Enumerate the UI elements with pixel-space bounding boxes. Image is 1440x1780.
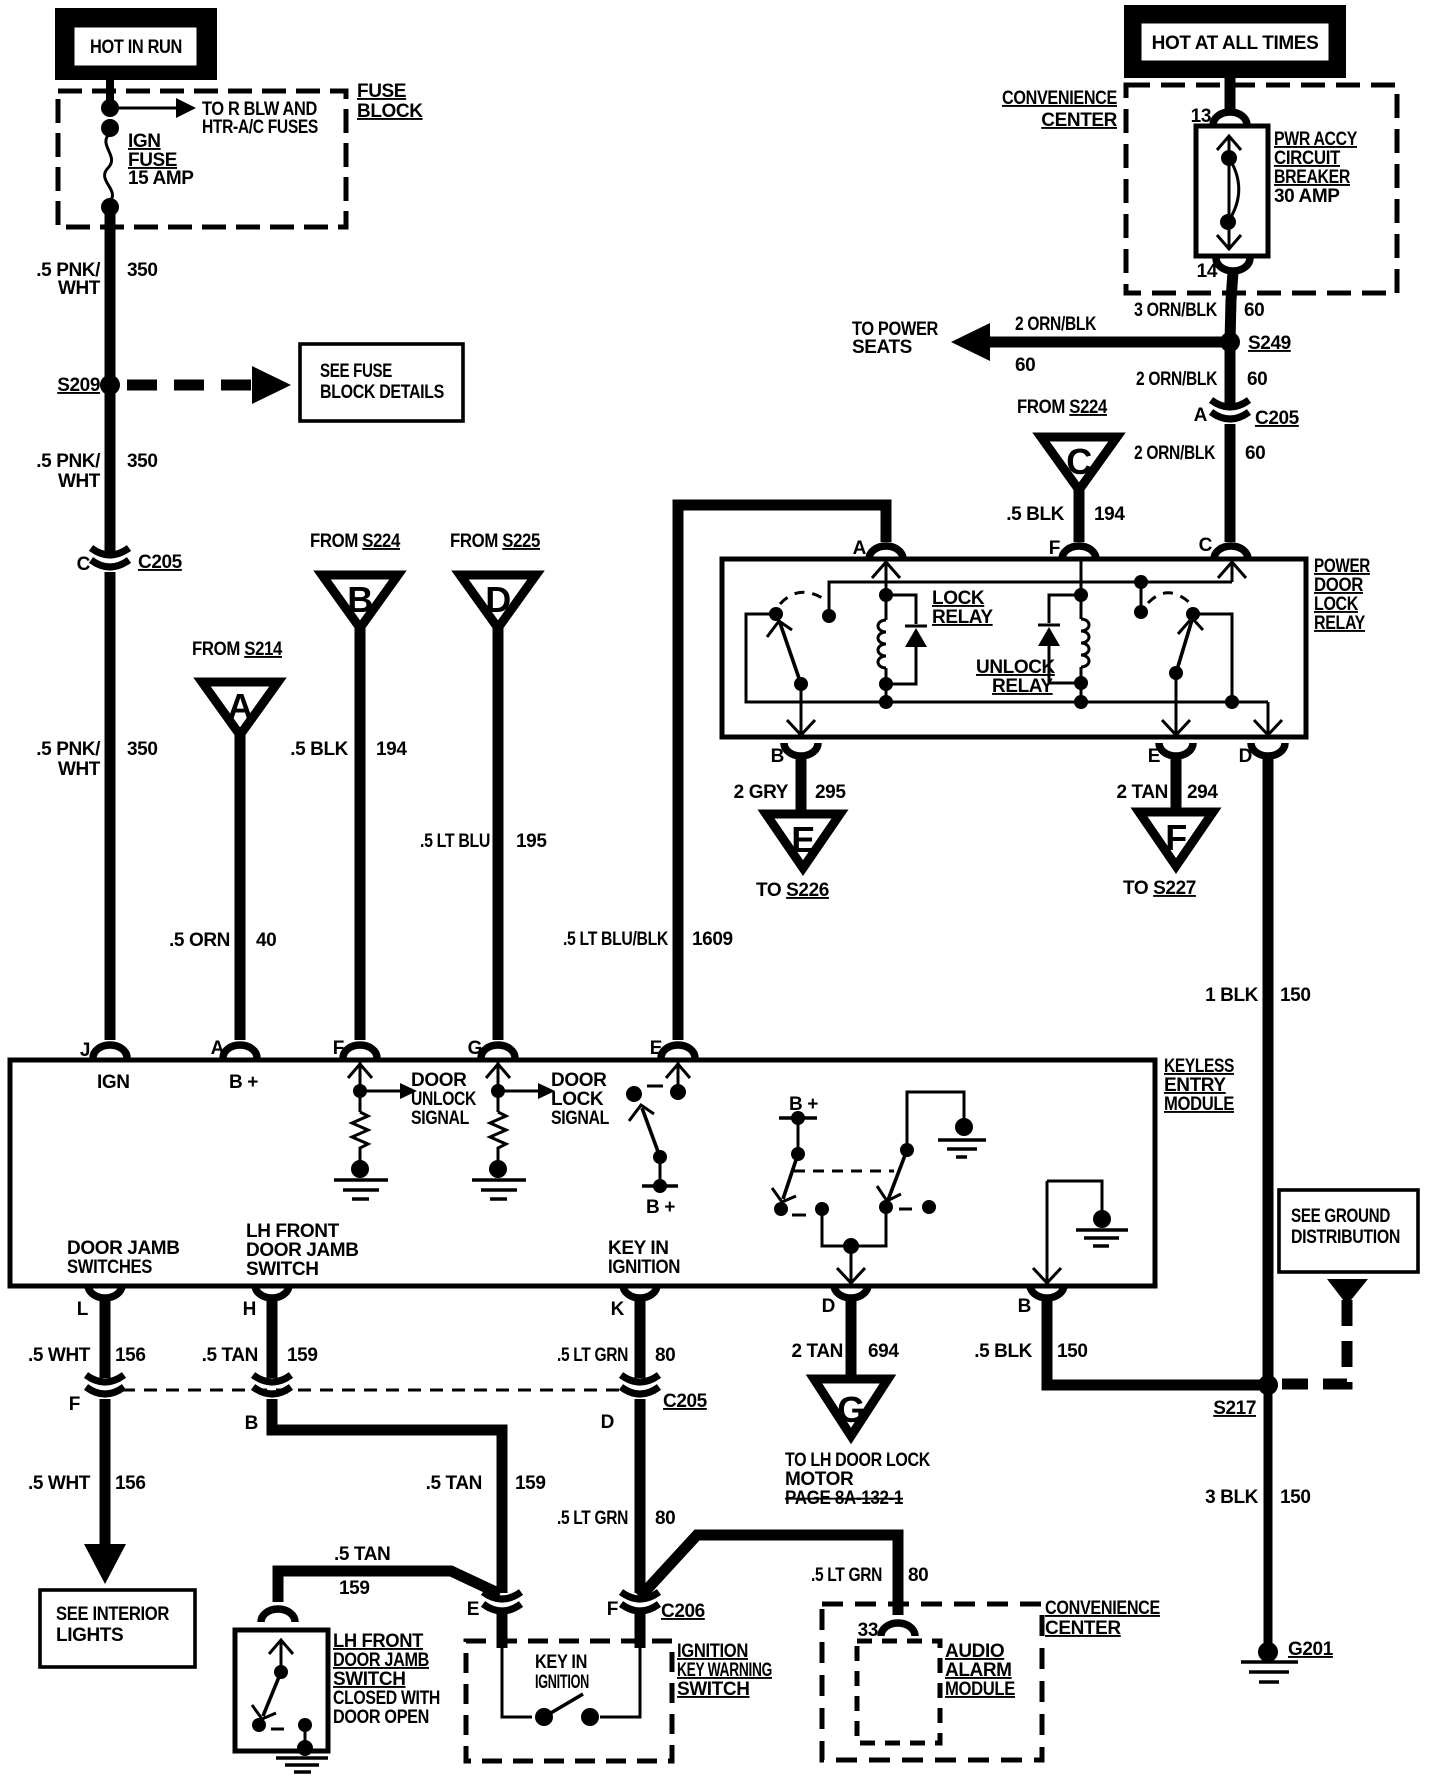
pin B ground branch [1033, 1181, 1128, 1283]
svg-text:FROM S224: FROM S224 [310, 531, 401, 552]
svg-text:UNLOCK: UNLOCK [976, 657, 1056, 678]
node unlock coil top [1074, 588, 1088, 602]
svg-text:.5 LT BLU/BLK: .5 LT BLU/BLK [563, 929, 669, 950]
svg-text:60: 60 [1244, 300, 1264, 321]
svg-text:LOCK: LOCK [932, 588, 985, 609]
wire .5 BLK 194 triangle B to module pin F [355, 628, 366, 1040]
node lock rail junction [879, 695, 893, 709]
svg-text:2 TAN: 2 TAN [1117, 782, 1168, 803]
svg-text:.5 BLK: .5 BLK [1006, 504, 1064, 525]
svg-text:WHT: WHT [58, 278, 101, 299]
circuit breaker PWR ACCY 30 AMP [1196, 126, 1268, 256]
svg-text:2 ORN/BLK: 2 ORN/BLK [1134, 443, 1216, 464]
svg-text:.5 LT GRN: .5 LT GRN [557, 1345, 628, 1366]
connector C205 pin F (bottom row) [69, 1375, 124, 1415]
svg-text:350: 350 [127, 451, 158, 472]
KEYLESS ENTRY MODULE box [10, 1060, 1155, 1286]
svg-text:SIGNAL: SIGNAL [551, 1108, 610, 1129]
node: ign fuse bottom junction [101, 198, 119, 216]
svg-text:.5 LT BLU: .5 LT BLU [420, 831, 490, 852]
svg-text:2 ORN/BLK: 2 ORN/BLK [1136, 369, 1218, 390]
svg-text:F: F [607, 1599, 618, 1620]
svg-text:WHT: WHT [58, 471, 101, 492]
svg-text:DOOR JAMB: DOOR JAMB [333, 1650, 429, 1671]
svg-text:156: 156 [115, 1473, 146, 1494]
wire pivot to D rail [1193, 614, 1232, 702]
svg-text:194: 194 [1094, 504, 1125, 525]
svg-text:30 AMP: 30 AMP [1274, 186, 1340, 207]
svg-text:SWITCH: SWITCH [677, 1679, 750, 1700]
wire .5 BLK 194 triangle C to relay pin F [1074, 490, 1085, 542]
svg-text:SWITCHES: SWITCHES [67, 1257, 152, 1278]
triangle D (FROM S225) [450, 531, 541, 628]
svg-text:B: B [245, 1413, 258, 1434]
node unlock contact stub [1134, 575, 1148, 619]
arrow down to relay pin B [787, 684, 815, 735]
key in ignition switch (pin E) [626, 1062, 690, 1193]
svg-text:LH FRONT: LH FRONT [333, 1631, 424, 1652]
relay pin F arrow inside [1080, 560, 1083, 595]
svg-text:IGN: IGN [128, 131, 161, 152]
triangle F (TO S227) [1123, 812, 1213, 899]
unlock relay coil [1081, 595, 1089, 683]
svg-text:TO LH DOOR LOCK: TO LH DOOR LOCK [785, 1450, 931, 1471]
node S217 [1258, 1375, 1278, 1395]
relay terminal B cup [784, 743, 818, 756]
arrowhead to see interior lights [84, 1544, 126, 1584]
module terminal G arch [481, 1045, 515, 1058]
node S209 [100, 375, 120, 395]
wire 2 TAN 294 to triangle F [1171, 758, 1182, 812]
ground under jamb switch [276, 1758, 328, 1772]
svg-text:RELAY: RELAY [932, 607, 993, 628]
node lock switch common [794, 677, 808, 691]
door unlock signal branch (pin F) [348, 1062, 417, 1112]
relay pin C arrow inside [1218, 560, 1246, 582]
svg-text:.5 TAN: .5 TAN [334, 1544, 390, 1565]
POWER DOOR LOCK RELAY box [722, 559, 1306, 737]
wire .5 TAN 159 connector B to C206 pin E [272, 1399, 502, 1593]
svg-text:CONVENIENCE: CONVENIENCE [1002, 88, 1117, 109]
svg-text:FROM S224: FROM S224 [1017, 397, 1108, 418]
wire .5 LT GRN 80 module pin K to connector [635, 1300, 646, 1378]
lock relay coil [878, 595, 886, 684]
svg-text:S217: S217 [1213, 1398, 1256, 1419]
svg-text:1609: 1609 [692, 929, 733, 950]
svg-text:.5 LT GRN: .5 LT GRN [557, 1508, 628, 1529]
node S249 [1220, 332, 1240, 352]
node unlock coil bottom [1074, 676, 1088, 690]
terminal 33 arch [881, 1623, 915, 1636]
relay terminal F arch [1062, 546, 1096, 559]
svg-text:FROM S214: FROM S214 [192, 639, 283, 660]
svg-text:.5 TAN: .5 TAN [426, 1473, 482, 1494]
convenience center dashed box [1126, 85, 1397, 293]
connector C205 pin D (bottom row) [601, 1375, 659, 1433]
svg-text:SEE GROUND: SEE GROUND [1291, 1206, 1390, 1227]
svg-text:F: F [1165, 817, 1187, 858]
svg-text:CENTER: CENTER [1041, 110, 1117, 131]
lock switch blade with arrow [767, 621, 801, 684]
box SEE INTERIOR LIGHTS [40, 1590, 195, 1667]
svg-text:DOOR: DOOR [1314, 575, 1364, 596]
svg-text:SWITCH: SWITCH [333, 1669, 406, 1690]
relay terminal E cup [1159, 743, 1193, 756]
svg-text:D: D [822, 1296, 835, 1317]
svg-text:HOT AT ALL TIMES: HOT AT ALL TIMES [1152, 33, 1319, 54]
svg-text:LOCK: LOCK [1314, 594, 1359, 615]
svg-text:SWITCH: SWITCH [246, 1259, 319, 1280]
svg-text:DISTRIBUTION: DISTRIBUTION [1291, 1227, 1400, 1248]
wire HOT AT ALL TIMES into breaker pin 13 [1225, 78, 1236, 110]
wire arrow TO POWER SEATS 2 ORN/BLK 60 [951, 323, 1224, 361]
svg-text:WHT: WHT [58, 759, 101, 780]
triangle B (FROM S224) [310, 531, 401, 628]
unlock diode [1038, 595, 1081, 702]
ground for D switch section [907, 1092, 986, 1157]
dashed connector line C205 bottom row [122, 1389, 628, 1392]
svg-text:F: F [333, 1038, 344, 1059]
module terminal E arch [661, 1045, 695, 1058]
svg-text:60: 60 [1015, 355, 1035, 376]
lock diode [886, 595, 927, 702]
svg-text:E: E [650, 1038, 662, 1059]
svg-text:80: 80 [655, 1345, 675, 1366]
svg-text:15 AMP: 15 AMP [128, 168, 194, 189]
svg-text:DOOR JAMB: DOOR JAMB [246, 1240, 359, 1261]
svg-text:2 ORN/BLK: 2 ORN/BLK [1015, 314, 1097, 335]
wire lock switch common rail [746, 614, 1268, 702]
wire .5 LT BLU/BLK 1609 relay pin A to module pin E [678, 505, 886, 1040]
door jamb switch terminal arch [261, 1609, 295, 1622]
module terminal H cup [255, 1285, 289, 1298]
svg-text:DOOR OPEN: DOOR OPEN [333, 1707, 429, 1728]
relay pin A arrow into coil [872, 560, 900, 595]
svg-text:80: 80 [908, 1565, 928, 1586]
svg-text:D: D [485, 579, 511, 620]
svg-text:SEE FUSE: SEE FUSE [320, 361, 392, 382]
svg-text:60: 60 [1245, 443, 1265, 464]
module terminal F arch [343, 1045, 377, 1058]
svg-text:BLOCK: BLOCK [357, 101, 423, 122]
svg-text:E: E [1148, 746, 1160, 767]
svg-text:B: B [1018, 1296, 1031, 1317]
module terminal B cup [1030, 1285, 1064, 1298]
svg-text:B: B [771, 746, 784, 767]
relay terminal D cup [1251, 743, 1285, 756]
svg-text:B +: B + [646, 1197, 675, 1218]
svg-text:TO S227: TO S227 [1123, 878, 1196, 899]
node: ign fuse top junction [101, 119, 119, 137]
svg-text:SIGNAL: SIGNAL [411, 1108, 470, 1129]
svg-text:IGN: IGN [97, 1072, 130, 1093]
svg-text:DOOR: DOOR [411, 1070, 467, 1091]
wire .5 LT GRN 80 connector D to C206 pin F [635, 1399, 646, 1593]
svg-text:D: D [1239, 746, 1252, 767]
svg-text:195: 195 [516, 831, 547, 852]
svg-text:2 TAN: 2 TAN [792, 1341, 843, 1362]
svg-text:B: B [347, 579, 373, 620]
svg-text:C: C [77, 554, 91, 575]
svg-text:DOOR: DOOR [551, 1070, 607, 1091]
node lock switch pivot [769, 607, 783, 621]
svg-text:350: 350 [127, 739, 158, 760]
fuse IGN FUSE 15 AMP (squiggle element) [105, 128, 113, 201]
module terminal A arch [223, 1045, 257, 1058]
wire from HOT IN RUN into fuse block [106, 80, 114, 105]
svg-text:2 GRY: 2 GRY [734, 782, 789, 803]
svg-text:K: K [611, 1299, 625, 1320]
svg-text:33: 33 [858, 1620, 878, 1641]
svg-text:BLOCK DETAILS: BLOCK DETAILS [320, 382, 444, 403]
wire .5 WHT 156 module pin L to connector [100, 1300, 111, 1378]
svg-text:60: 60 [1247, 369, 1267, 390]
svg-text:PWR ACCY: PWR ACCY [1274, 129, 1358, 150]
svg-text:SEATS: SEATS [852, 337, 912, 358]
svg-text:RELAY: RELAY [1314, 613, 1366, 634]
svg-text:.5 WHT: .5 WHT [28, 1473, 91, 1494]
connector C206 pin E [467, 1592, 521, 1620]
module terminal D cup [834, 1285, 868, 1298]
arrow down to relay pin E [1162, 673, 1190, 735]
terminal 13 arch [1213, 112, 1247, 125]
svg-text:POWER: POWER [1314, 556, 1371, 577]
resistor F [352, 1112, 368, 1162]
svg-text:KEY IN: KEY IN [535, 1652, 587, 1673]
svg-text:F: F [1049, 538, 1060, 559]
svg-text:BREAKER: BREAKER [1274, 167, 1351, 188]
AUDIO ALARM MODULE outer dashed box (convenience center) [822, 1604, 1042, 1760]
svg-text:CLOSED WITH: CLOSED WITH [333, 1688, 440, 1709]
svg-text:ENTRY: ENTRY [1164, 1075, 1226, 1096]
svg-text:FROM S225: FROM S225 [450, 531, 541, 552]
node unlock rail junction [1074, 695, 1088, 709]
svg-text:3 BLK: 3 BLK [1205, 1487, 1259, 1508]
svg-text:IGNITION: IGNITION [535, 1672, 589, 1693]
svg-text:B +: B + [789, 1094, 818, 1115]
svg-text:C205: C205 [138, 552, 183, 573]
dashed wire ground distribution to S217 [1280, 1300, 1347, 1384]
svg-text:ALARM: ALARM [945, 1660, 1012, 1681]
relay terminal A arch [869, 546, 903, 559]
svg-text:156: 156 [115, 1345, 146, 1366]
svg-text:C206: C206 [661, 1601, 705, 1622]
node unlock switch pivot [1186, 607, 1200, 621]
connector C205 (left, pin C) [77, 548, 183, 575]
svg-text:HOT IN RUN: HOT IN RUN [90, 37, 182, 58]
svg-text:LH FRONT: LH FRONT [246, 1221, 340, 1242]
connector C206 pin F [607, 1592, 705, 1622]
svg-text:FUSE: FUSE [357, 81, 406, 102]
svg-text:159: 159 [515, 1473, 546, 1494]
svg-text:CONVENIENCE: CONVENIENCE [1045, 1598, 1160, 1619]
node lock coil bottom [879, 677, 893, 691]
svg-text:.5 LT GRN: .5 LT GRN [811, 1565, 882, 1586]
svg-text:150: 150 [1280, 985, 1311, 1006]
triangle C (FROM S224) [1017, 397, 1117, 490]
wire internal bus y=582 [829, 582, 1232, 616]
svg-text:.5 ORN: .5 ORN [169, 930, 230, 951]
node G201 ground [1241, 1639, 1334, 1682]
svg-text:C: C [1199, 535, 1213, 556]
wire .5 BLK 150 module pin B to S217 [1047, 1300, 1262, 1385]
svg-text:A: A [211, 1038, 225, 1059]
arrow down to relay pin D [1254, 702, 1282, 735]
svg-text:S209: S209 [57, 375, 100, 396]
HOT AT ALL TIMES box [1124, 5, 1346, 78]
svg-text:3 ORN/BLK: 3 ORN/BLK [1134, 300, 1218, 321]
resistor G [490, 1112, 506, 1162]
unlock switch blade with arrow [1176, 618, 1203, 673]
wire 3 ORN/BLK 60 breaker to S249 [1230, 272, 1233, 342]
svg-text:RELAY: RELAY [992, 676, 1053, 697]
door lock signal branch (pin G) [486, 1062, 555, 1112]
HOT IN RUN box [55, 8, 217, 80]
svg-text:80: 80 [655, 1508, 675, 1529]
svg-text:CENTER: CENTER [1045, 1618, 1121, 1639]
svg-text:PAGE 8A-132-1: PAGE 8A-132-1 [785, 1488, 904, 1509]
node lock contact [822, 609, 836, 623]
dashed arrow to see fuse block details [127, 366, 291, 404]
triangle G (TO LH DOOR LOCK MOTOR) [814, 1379, 888, 1436]
node unlock switch common [1169, 666, 1183, 680]
svg-text:F: F [69, 1394, 80, 1415]
svg-text:S249: S249 [1248, 333, 1291, 354]
wire 2 TAN 694 module pin D to triangle G [846, 1300, 857, 1379]
svg-text:.5 BLK: .5 BLK [290, 739, 348, 760]
svg-text:C205: C205 [1255, 408, 1300, 429]
svg-text:G201: G201 [1288, 1639, 1334, 1660]
svg-text:159: 159 [339, 1578, 370, 1599]
key in ignition switch internals [502, 1613, 640, 1726]
wire 2 ORN/BLK 60 C205 to relay pin C [1225, 424, 1236, 542]
box SEE GROUND DISTRIBUTION [1279, 1190, 1418, 1272]
wire .5 ORN 40 triangle A to module pin A [235, 735, 246, 1040]
svg-text:L: L [77, 1299, 89, 1320]
svg-text:194: 194 [376, 739, 407, 760]
svg-text:1 BLK: 1 BLK [1205, 985, 1259, 1006]
module terminal J arch [93, 1045, 127, 1058]
svg-text:.5 BLK: .5 BLK [974, 1341, 1032, 1362]
triangle under ground distribution box [1327, 1279, 1368, 1305]
wire .5 PNK/WHT 350 from C205 to module pin J [105, 572, 116, 1040]
wire .5 TAN 159 module pin H to connector [267, 1300, 278, 1378]
wire 3 BLK 150 S217 to G201 [1264, 1385, 1273, 1648]
svg-text:A: A [853, 538, 867, 559]
svg-text:A: A [227, 686, 253, 727]
dashed arc unlock switch [1148, 593, 1191, 604]
svg-text:.5 TAN: .5 TAN [202, 1345, 258, 1366]
svg-text:A: A [1194, 405, 1208, 426]
svg-text:E: E [467, 1599, 479, 1620]
node lock coil top [879, 588, 893, 602]
connector C205 (right, pin A) [1194, 400, 1300, 429]
svg-text:LOCK: LOCK [551, 1089, 604, 1110]
svg-text:C: C [1066, 441, 1092, 482]
svg-text:TO S226: TO S226 [756, 880, 829, 901]
LH FRONT DOOR JAMB SWITCH box [235, 1630, 328, 1756]
triangle A (FROM S214) [192, 639, 283, 735]
module terminal L cup [88, 1285, 122, 1298]
svg-text:150: 150 [1057, 1341, 1088, 1362]
svg-text:B +: B + [229, 1072, 258, 1093]
svg-text:AUDIO: AUDIO [945, 1641, 1004, 1662]
wire .5 LT BLU 195 triangle D to module pin G [493, 628, 504, 1040]
svg-text:40: 40 [256, 930, 276, 951]
svg-text:D: D [601, 1412, 614, 1433]
wire .5 LT GRN 80 branch to audio alarm module [640, 1535, 898, 1615]
svg-text:E: E [791, 819, 815, 860]
svg-text:295: 295 [815, 782, 846, 803]
svg-text:G: G [468, 1038, 482, 1059]
svg-text:UNLOCK: UNLOCK [411, 1089, 477, 1110]
svg-text:.5 PNK/: .5 PNK/ [36, 451, 101, 472]
IGNITION KEY WARNING SWITCH dashed box [466, 1641, 672, 1761]
svg-text:MOTOR: MOTOR [785, 1469, 854, 1490]
svg-text:.5 WHT: .5 WHT [28, 1345, 91, 1366]
triangle E (TO S226) [756, 814, 840, 901]
module terminal K cup [623, 1285, 657, 1298]
svg-text:G: G [837, 1389, 865, 1430]
svg-text:.5 PNK/: .5 PNK/ [36, 739, 101, 760]
node: fuse feed junction [101, 99, 119, 117]
wire .5 PNK/WHT 350 from fuse block to C205 [105, 207, 116, 552]
svg-text:IGNITION: IGNITION [608, 1257, 680, 1278]
wire .5 WHT 156 to interior lights arrow [100, 1399, 111, 1546]
svg-text:159: 159 [287, 1345, 318, 1366]
relay terminal C arch [1214, 546, 1248, 559]
node rail-D junction [1225, 695, 1239, 709]
audio alarm module inner dashed box [857, 1641, 940, 1743]
box SEE FUSE BLOCK DETAILS [300, 344, 463, 421]
svg-text:J: J [80, 1040, 90, 1061]
wire .5 TAN 159 door jamb switch to C206 pin E [278, 1571, 500, 1602]
wire 1 BLK 150 relay pin D down right side [1263, 758, 1274, 1385]
svg-text:694: 694 [868, 1341, 899, 1362]
svg-text:HTR-A/C FUSES: HTR-A/C FUSES [202, 117, 318, 138]
svg-text:SEE INTERIOR: SEE INTERIOR [56, 1604, 170, 1625]
wire arrow to R BLW and HTR-A/C fuses [110, 98, 196, 118]
svg-text:KEY WARNING: KEY WARNING [677, 1660, 772, 1681]
svg-text:MODULE: MODULE [1164, 1094, 1234, 1115]
svg-text:CIRCUIT: CIRCUIT [1274, 148, 1341, 169]
ground under resistor F [334, 1160, 388, 1199]
fuse block dashed box [58, 91, 346, 227]
svg-text:350: 350 [127, 260, 158, 281]
svg-text:150: 150 [1280, 1487, 1311, 1508]
dashed arc lock switch [780, 592, 827, 604]
svg-text:DOOR JAMB: DOOR JAMB [67, 1238, 180, 1259]
svg-text:KEYLESS: KEYLESS [1164, 1056, 1234, 1077]
svg-text:MODULE: MODULE [945, 1679, 1015, 1700]
wire 2 GRY 295 to triangle E [796, 758, 807, 814]
connector C205 pin B (bottom row) [245, 1375, 291, 1434]
svg-text:294: 294 [1187, 782, 1218, 803]
svg-text:KEY IN: KEY IN [608, 1238, 669, 1259]
svg-text:IGNITION: IGNITION [677, 1641, 748, 1662]
ground under resistor G [472, 1160, 526, 1199]
wire 2 ORN/BLK 60 S249 to C205 pin A [1225, 342, 1236, 404]
svg-text:LIGHTS: LIGHTS [56, 1625, 123, 1646]
svg-text:H: H [243, 1299, 256, 1320]
svg-text:C205: C205 [663, 1391, 708, 1412]
